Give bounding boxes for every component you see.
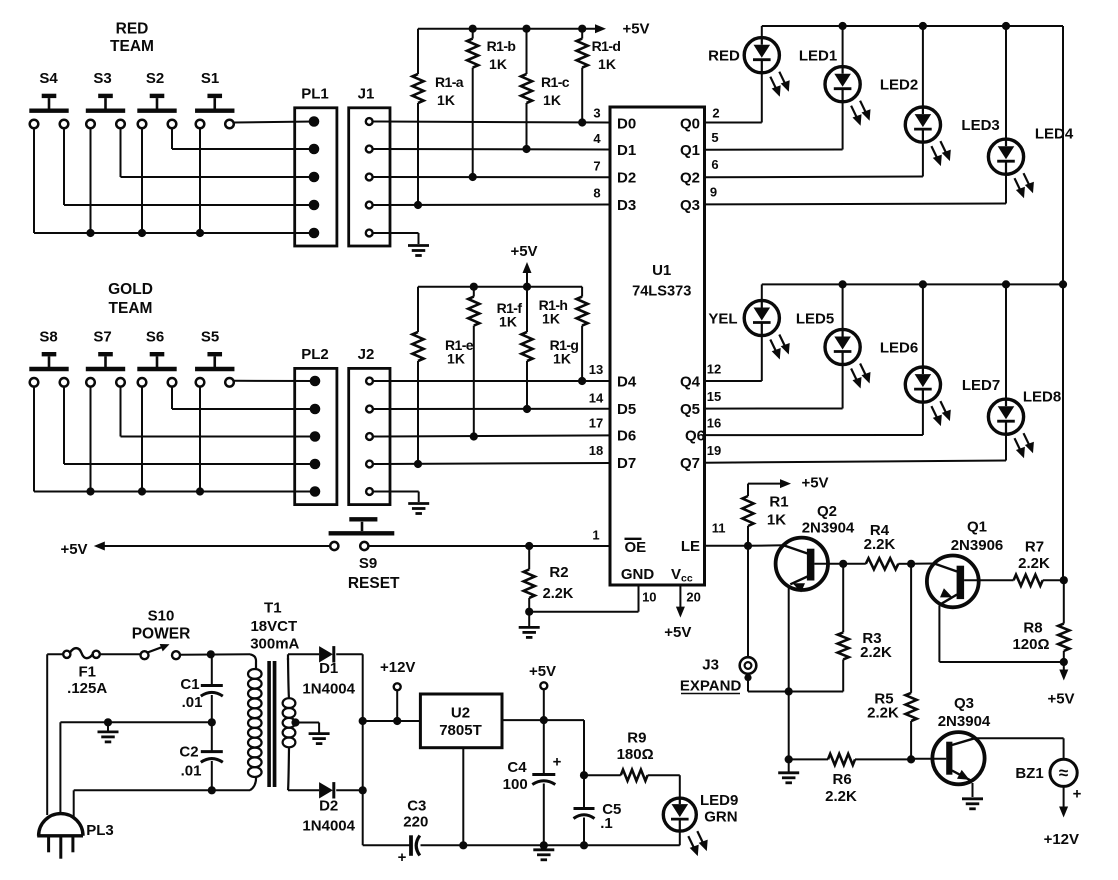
U1 pin Q3 label: [680, 185, 717, 214]
svg-text:Q2: Q2: [817, 503, 837, 520]
+5V rail gold: [418, 243, 582, 287]
transistor Q3 2N3904: [911, 695, 991, 797]
svg-text:S1: S1: [201, 70, 219, 87]
svg-text:9: 9: [710, 185, 717, 200]
wire J2-3 to D6: [373, 435, 610, 436]
fuse F1: [63, 648, 107, 697]
svg-text:+5V: +5V: [664, 624, 691, 641]
transistor Q2 2N3904: [748, 503, 855, 691]
+5V terminal: [529, 663, 556, 720]
junction rail2 right column: [1059, 280, 1067, 288]
capacitor C5: [574, 775, 622, 845]
svg-text:OE: OE: [625, 539, 647, 556]
ground at center tap: [309, 734, 330, 744]
capacitor C1: [180, 654, 222, 722]
junction R1-c D1: [522, 145, 530, 153]
junction red bus S1: [196, 229, 204, 237]
svg-text:V: V: [671, 566, 681, 583]
svg-text:S7: S7: [93, 328, 111, 345]
wire LE to junction: [705, 545, 749, 547]
J1 pins: [366, 118, 373, 236]
resistor R1-f: [468, 287, 522, 437]
ground below Q3: [962, 799, 983, 809]
jack J3: [680, 657, 756, 695]
junction R1-d top: [578, 25, 586, 33]
svg-text:D5: D5: [617, 401, 636, 418]
U1 pin D0 label: [593, 106, 636, 133]
+5V below R8: [1047, 662, 1074, 707]
svg-text:D7: D7: [617, 455, 636, 472]
wire Q1 to LED2: [705, 149, 843, 151]
svg-text:Q4: Q4: [680, 373, 701, 390]
svg-text:74LS373: 74LS373: [632, 283, 691, 299]
wire S2 to PL1 pin2: [172, 128, 314, 149]
wire J2-1 to D4: [373, 380, 610, 382]
svg-text:.01: .01: [182, 694, 203, 711]
ground at J2: [408, 504, 429, 514]
svg-text:LED9: LED9: [700, 792, 738, 809]
svg-text:S6: S6: [146, 328, 164, 345]
wire gold common bus: [34, 387, 314, 492]
svg-text:1: 1: [592, 528, 599, 543]
svg-text:D1: D1: [319, 660, 338, 677]
svg-text:S2: S2: [146, 70, 164, 87]
junction C1 C2: [208, 718, 216, 726]
switch S7 label: [93, 328, 111, 345]
junction R1-e D7: [414, 460, 422, 468]
svg-text:Q1: Q1: [680, 142, 700, 159]
U1 pin Q7 label: [680, 443, 721, 472]
U1 pin Q4 label: [680, 362, 721, 391]
connector PL1: [295, 85, 337, 246]
resistor R1-e: [412, 287, 473, 464]
U1 pin Q1 label: [680, 130, 719, 159]
svg-text:GOLD: GOLD: [108, 281, 153, 298]
resistor R1: [742, 484, 788, 546]
+5V rail red: [418, 20, 650, 37]
wire R4 to Q1 base: [911, 563, 934, 565]
wire Q0 to LED1: [705, 122, 762, 124]
wire mains top left: [47, 653, 63, 655]
U1 pin LE label: [681, 520, 726, 555]
svg-text:Q6: Q6: [685, 428, 705, 445]
junction C5 bus: [580, 841, 588, 849]
wire S4 to PL1 pin4: [64, 128, 314, 205]
svg-text:LED5: LED5: [796, 310, 834, 327]
wire +5V column down: [583, 720, 585, 775]
resistor R1-g: [521, 287, 578, 409]
label GOLD TEAM: [108, 281, 153, 317]
junction R4 right: [907, 560, 915, 568]
svg-text:Q2: Q2: [680, 170, 700, 187]
wire +12V to U2: [363, 720, 421, 722]
ground at mains: [98, 722, 119, 742]
wire right column upper: [1062, 26, 1064, 284]
svg-text:+12V: +12V: [380, 659, 415, 676]
label RED TEAM: [110, 21, 154, 56]
svg-text:D1: D1: [617, 142, 636, 159]
svg-text:C4: C4: [507, 759, 527, 776]
wire Q3 to LED4: [705, 203, 1007, 206]
svg-text:1K: 1K: [489, 56, 507, 72]
svg-text:.125A: .125A: [67, 680, 107, 697]
svg-text:J2: J2: [358, 346, 375, 363]
svg-text:S9: S9: [359, 555, 377, 572]
wire S9 to OE: [368, 545, 610, 547]
junction R1-g top: [523, 283, 531, 291]
svg-text:R1-c: R1-c: [541, 74, 570, 90]
junction R1-b top: [469, 25, 477, 33]
svg-text:R7: R7: [1025, 538, 1044, 555]
resistor R4: [843, 522, 911, 570]
resistor R2: [524, 546, 574, 612]
svg-text:.1: .1: [600, 815, 613, 832]
svg-text:EXPAND: EXPAND: [680, 678, 742, 695]
svg-text:7: 7: [593, 159, 600, 174]
LED LED2: [825, 26, 918, 150]
junction rail2 LED7: [919, 280, 927, 288]
junction Q2 collector R3: [839, 560, 847, 568]
svg-text:S5: S5: [201, 328, 219, 345]
pushbutton switch S2: [137, 96, 176, 128]
label S10 POWER: [132, 607, 191, 642]
wire J2-2 to D5: [373, 408, 610, 410]
svg-text:15: 15: [707, 389, 721, 404]
resistor R9: [584, 729, 680, 780]
svg-text:8: 8: [593, 186, 600, 201]
svg-text:PL2: PL2: [301, 346, 329, 363]
U1 pin Q0 label: [680, 106, 720, 133]
wire J1-3 to D2: [373, 176, 610, 178]
svg-text:+5V: +5V: [510, 243, 537, 260]
resistor R1-a: [412, 29, 463, 205]
buzzer BZ1: [1015, 759, 1081, 802]
transistor Q1 2N3906: [927, 518, 1064, 662]
switch S6 label: [146, 328, 164, 345]
PL1 pins: [309, 116, 320, 238]
wire Q7 to LED8: [705, 461, 1007, 463]
junction LE node: [744, 542, 752, 550]
svg-text:220: 220: [403, 813, 428, 830]
U1 pin20 Vcc +5V: [664, 585, 691, 641]
svg-text:2N3904: 2N3904: [802, 519, 855, 536]
junction R1-g D5: [523, 405, 531, 413]
wire S8 to PL2 pin4: [64, 387, 314, 464]
junction rail2 LED6: [839, 280, 847, 288]
U1 pin D2 label: [593, 159, 636, 187]
ground at C4: [533, 850, 554, 860]
svg-text:S8: S8: [39, 328, 57, 345]
junction R1-a D3: [414, 201, 422, 209]
LED LED6: [825, 284, 918, 408]
wire S7 to PL2 pin3: [121, 387, 315, 437]
pushbutton switch S1: [195, 96, 234, 128]
svg-text:1K: 1K: [543, 92, 561, 108]
svg-text:2.2K: 2.2K: [867, 705, 899, 722]
U1 pin10 GND stub: [529, 585, 638, 612]
plug PL3: [37, 814, 114, 859]
resistor R1-b: [467, 29, 515, 177]
pushbutton switch S9: [329, 519, 395, 550]
connector J1: [349, 85, 390, 246]
wire mains mid vertical: [59, 722, 61, 815]
junction D2 node: [359, 786, 367, 794]
wire J3 to R3 bottom: [748, 681, 843, 692]
wire U2 output: [502, 719, 584, 721]
junction gold bus S5: [196, 487, 204, 495]
svg-text:R1-d: R1-d: [592, 38, 621, 54]
ground at J1: [408, 246, 429, 256]
svg-text:.01: .01: [181, 762, 202, 779]
wire S5 to PL2 pin1: [234, 380, 314, 382]
svg-text:18: 18: [589, 443, 603, 458]
junction R1-c top: [522, 25, 530, 33]
svg-text:1K: 1K: [447, 351, 465, 367]
svg-text:Q3: Q3: [954, 695, 974, 712]
svg-text:U1: U1: [652, 262, 671, 279]
svg-text:POWER: POWER: [132, 626, 191, 643]
wire +5V to S9: [102, 545, 330, 547]
+5V left arrow: [60, 541, 104, 558]
svg-text:GRN: GRN: [704, 809, 737, 826]
label S9 RESET: [348, 555, 400, 592]
svg-text:20: 20: [686, 590, 700, 605]
capacitor C4: [503, 720, 562, 845]
svg-text:1N4004: 1N4004: [302, 817, 355, 834]
wire S3 to PL1 pin3: [121, 128, 315, 177]
LED LED7: [905, 284, 1000, 435]
switch S10: [141, 644, 181, 659]
switch S2 label: [146, 70, 164, 87]
U1 pin D1 label: [593, 131, 636, 159]
junction rail LED2: [839, 22, 847, 30]
resistor R1-d: [577, 29, 621, 123]
svg-text:1K: 1K: [437, 92, 455, 108]
junction R9 C5: [580, 771, 588, 779]
svg-text:10: 10: [642, 590, 656, 605]
capacitor C2: [179, 722, 222, 790]
svg-text:RED: RED: [708, 48, 740, 65]
svg-text:17: 17: [589, 416, 603, 431]
svg-text:PL1: PL1: [301, 85, 329, 102]
svg-text:Q7: Q7: [680, 455, 700, 472]
wire Q6 to LED7: [705, 434, 923, 436]
svg-text:GND: GND: [621, 566, 655, 583]
pushbutton switch S3: [86, 96, 125, 128]
svg-text:Q5: Q5: [680, 401, 700, 418]
wire mains left vertical: [46, 654, 48, 815]
junction T1 center tap: [291, 718, 299, 726]
junction R1-b D2: [469, 173, 477, 181]
svg-text:100: 100: [503, 776, 528, 793]
resistor R5: [867, 564, 917, 760]
transformer T1: [248, 600, 300, 791]
pushbutton switch S7: [86, 354, 125, 386]
wire S6 to PL2 pin2: [172, 387, 314, 409]
svg-text:R1: R1: [769, 493, 788, 510]
svg-text:LED7: LED7: [962, 377, 1000, 394]
wire right column lower: [1062, 284, 1064, 580]
junction emitter node: [785, 687, 793, 695]
svg-text:LED4: LED4: [1035, 126, 1074, 143]
connector PL2: [295, 346, 337, 505]
switch S1 label: [201, 70, 219, 87]
svg-text:BZ1: BZ1: [1015, 765, 1043, 782]
ground below R2: [519, 612, 540, 638]
wire S1 to PL1 pin1: [234, 122, 314, 123]
junction red bus S2: [138, 229, 146, 237]
svg-text:2: 2: [712, 106, 719, 121]
wire center tap to ground: [296, 723, 320, 734]
svg-text:+5V: +5V: [529, 663, 556, 680]
svg-text:16: 16: [707, 416, 721, 431]
junction below R8: [1060, 658, 1068, 666]
svg-text:2.2K: 2.2K: [825, 788, 857, 805]
svg-text:J3: J3: [702, 657, 719, 674]
svg-text:11: 11: [712, 520, 726, 535]
svg-text:S10: S10: [148, 607, 175, 624]
wire J1-1 to D0: [373, 122, 610, 123]
junction R2 bottom: [525, 608, 533, 616]
svg-text:2.2K: 2.2K: [860, 644, 892, 661]
svg-text:≈: ≈: [1059, 763, 1068, 782]
+5V arrow at R1: [748, 474, 829, 491]
LED LED4: [988, 26, 1073, 204]
U1 pin D3 label: [593, 186, 636, 214]
LED LED5: [744, 284, 834, 381]
junction R2 top: [525, 542, 533, 550]
switch S8 label: [39, 328, 57, 345]
capacitor C3: [398, 797, 429, 866]
junction U2 gnd bus: [459, 841, 467, 849]
label RED: [708, 48, 740, 65]
pushbutton switch S6: [137, 354, 176, 386]
svg-text:RED: RED: [116, 21, 149, 38]
PL2 pins: [310, 376, 321, 497]
U1 pin D7 label: [589, 443, 636, 472]
ground bus left: [788, 692, 790, 760]
ground below Q2 emitter: [778, 759, 799, 782]
svg-text:LED6: LED6: [880, 339, 918, 356]
svg-text:LED2: LED2: [880, 77, 918, 94]
pushbutton switch S8: [29, 354, 68, 386]
svg-text:+: +: [398, 849, 407, 866]
svg-text:LED3: LED3: [961, 117, 999, 134]
+12V below BZ1: [1044, 786, 1079, 848]
junction C4 bus: [540, 841, 548, 849]
svg-text:2.2K: 2.2K: [543, 586, 574, 602]
svg-text:1K: 1K: [542, 311, 560, 327]
junction mid ground: [104, 718, 112, 726]
svg-text:3: 3: [593, 106, 600, 121]
svg-text:YEL: YEL: [708, 310, 737, 327]
svg-text:TEAM: TEAM: [109, 300, 153, 317]
junction R1-f D6: [470, 432, 478, 440]
svg-text:1K: 1K: [598, 56, 616, 72]
resistor R7: [1014, 538, 1064, 585]
wire J1-4 to D3: [373, 204, 610, 207]
svg-text:+: +: [1073, 786, 1082, 803]
wire Q3 collector to BZ1: [975, 738, 1064, 759]
wire rectifier output column: [362, 654, 364, 845]
svg-text:Q3: Q3: [680, 197, 700, 214]
svg-text:+: +: [553, 753, 562, 770]
svg-text:+5V: +5V: [1047, 690, 1074, 707]
U1 pin D4 label: [589, 362, 637, 390]
svg-text:+5V: +5V: [622, 20, 649, 37]
svg-text:J1: J1: [358, 85, 375, 102]
U1 pin Q2 label: [680, 157, 719, 187]
svg-text:cc: cc: [681, 572, 693, 584]
svg-text:13: 13: [589, 362, 603, 377]
svg-text:5: 5: [711, 130, 718, 145]
wire neutral mid: [60, 721, 211, 723]
svg-text:1K: 1K: [499, 314, 517, 330]
resistor R8: [1012, 580, 1069, 662]
wire Q5 to LED6: [705, 408, 843, 410]
pushbutton switch S5: [195, 354, 234, 386]
wire S10 to T1: [180, 653, 250, 656]
svg-text:D3: D3: [617, 197, 636, 214]
svg-text:LE: LE: [681, 538, 700, 555]
svg-text:120Ω: 120Ω: [1012, 636, 1049, 653]
svg-text:F1: F1: [78, 663, 96, 680]
svg-text:PL3: PL3: [86, 822, 114, 839]
switch S5 label: [201, 328, 219, 345]
junction rail LED4: [1002, 22, 1010, 30]
svg-text:6: 6: [711, 157, 718, 172]
wire ground bus bottom: [363, 844, 680, 846]
resistor R3: [838, 564, 892, 692]
wire red led top rail: [762, 25, 1063, 27]
svg-text:R1-a: R1-a: [435, 74, 464, 90]
svg-text:+5V: +5V: [801, 474, 828, 491]
svg-text:7805T: 7805T: [439, 722, 482, 739]
wire Q2 to LED3: [705, 176, 923, 179]
svg-text:S3: S3: [93, 70, 111, 87]
svg-text:2.2K: 2.2K: [1018, 555, 1050, 572]
junction R1-h D4: [578, 377, 586, 385]
svg-text:D2: D2: [319, 798, 338, 815]
LED LED1: [744, 26, 837, 123]
svg-text:12: 12: [707, 362, 721, 377]
junction R5 R6 Q3: [907, 755, 915, 763]
U1 pin Q6 label: [685, 416, 721, 445]
svg-text:Q0: Q0: [680, 115, 700, 132]
LED LED3: [905, 26, 999, 177]
junction rail2 LED8: [1002, 280, 1010, 288]
svg-text:D6: D6: [617, 428, 636, 445]
junction C1 top: [207, 650, 215, 658]
wire J1-2 to D1: [373, 148, 610, 151]
U1 pin GND label: [621, 566, 657, 605]
resistor R1-h: [539, 287, 588, 381]
wire F1 to S10: [100, 653, 141, 655]
svg-text:LED1: LED1: [799, 48, 837, 65]
junction R7 R8: [1060, 576, 1068, 584]
svg-text:S4: S4: [39, 70, 58, 87]
junction rail LED3: [919, 22, 927, 30]
svg-text:RESET: RESET: [348, 575, 400, 592]
svg-text:300mA: 300mA: [250, 636, 299, 653]
wire J2-5 to ground: [373, 492, 419, 503]
wire LE node down to J3: [747, 546, 749, 657]
+12V terminal: [380, 659, 415, 721]
svg-text:1N4004: 1N4004: [302, 681, 355, 698]
svg-text:TEAM: TEAM: [110, 38, 154, 55]
op-amp U1 74LS373 body: [610, 107, 705, 585]
junction red bus S3: [86, 229, 94, 237]
